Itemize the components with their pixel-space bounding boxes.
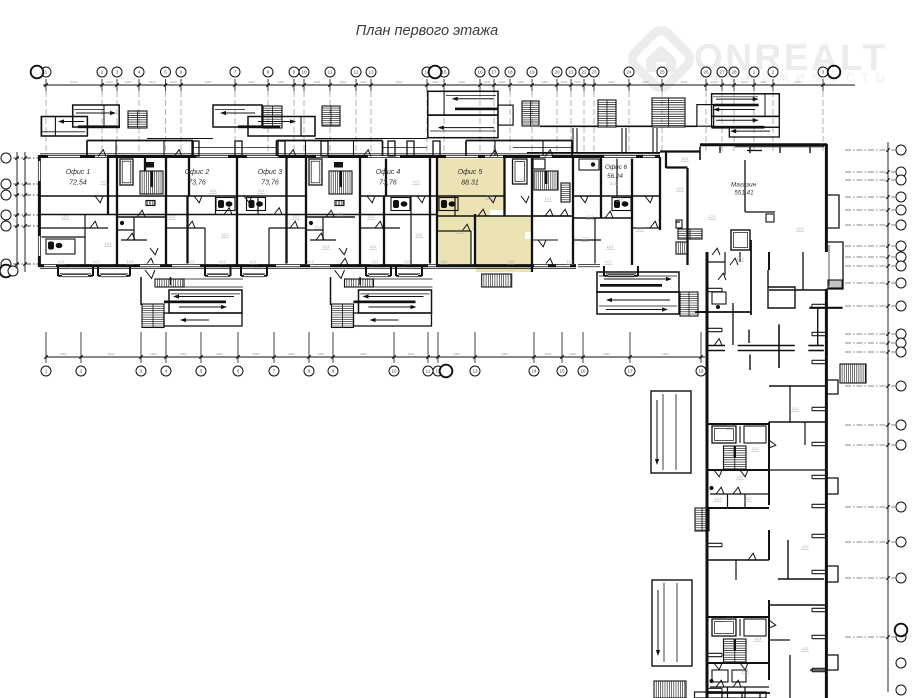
- svg-text:Офис 5: Офис 5: [458, 169, 483, 176]
- svg-text:3000: 3000: [314, 80, 321, 84]
- svg-text:1: 1: [45, 369, 48, 374]
- svg-text:5: 5: [200, 369, 203, 374]
- svg-text:12,3: 12,3: [105, 242, 112, 246]
- svg-text:12,3: 12,3: [323, 245, 330, 249]
- svg-text:12: 12: [353, 70, 359, 75]
- svg-text:8: 8: [267, 70, 270, 75]
- bathrooms with fixtures: [46, 159, 631, 254]
- svg-text:26: 26: [703, 70, 709, 75]
- svg-text:4: 4: [165, 369, 168, 374]
- svg-text:3000: 3000: [106, 80, 113, 84]
- svg-text:12,3: 12,3: [521, 177, 528, 181]
- top wing party walls: [108, 157, 688, 272]
- svg-text:12,3: 12,3: [93, 260, 100, 264]
- svg-text:22: 22: [581, 70, 587, 75]
- svg-text:12,3: 12,3: [101, 180, 108, 184]
- balcony hatch office5: [482, 274, 512, 287]
- svg-text:6000: 6000: [453, 352, 460, 356]
- svg-text:12,3: 12,3: [188, 260, 195, 264]
- svg-text:12,3: 12,3: [797, 227, 804, 231]
- entrance stair 3: [522, 101, 539, 126]
- svg-text:18: 18: [507, 70, 513, 75]
- entrance stair 1: [128, 111, 147, 128]
- svg-text:12,3: 12,3: [802, 545, 809, 549]
- svg-text:12,3: 12,3: [587, 215, 594, 219]
- right wing extra walls: [707, 252, 826, 698]
- svg-text:9: 9: [332, 369, 335, 374]
- svg-text:12,3: 12,3: [222, 233, 229, 237]
- svg-text:12,3: 12,3: [792, 407, 799, 411]
- highlight fill Офис 5: [437, 157, 532, 272]
- svg-text:3000: 3000: [340, 80, 347, 84]
- svg-text:11,12: 11,12: [610, 182, 618, 186]
- title: План первого этажа: [356, 23, 498, 39]
- svg-text:3: 3: [140, 369, 143, 374]
- watermark ONREALT: [628, 26, 891, 91]
- svg-text:12,3: 12,3: [210, 189, 217, 193]
- svg-text:Офис 3: Офис 3: [258, 169, 283, 176]
- svg-text:5: 5: [164, 70, 167, 75]
- room labels: [66, 164, 757, 197]
- svg-text:12,3: 12,3: [416, 233, 423, 237]
- right grid dimension column: [845, 142, 907, 695]
- svg-text:12,3: 12,3: [404, 260, 411, 264]
- svg-text:6000: 6000: [408, 352, 415, 356]
- svg-text:3000: 3000: [561, 80, 568, 84]
- right wing module B: [707, 617, 769, 698]
- svg-text:3: 3: [822, 70, 825, 75]
- svg-text:12,3: 12,3: [677, 187, 684, 191]
- svg-text:12,3: 12,3: [755, 637, 762, 641]
- corner stair hatch: [678, 229, 702, 239]
- rw stair hatch 1: [695, 508, 709, 531]
- svg-text:12,3: 12,3: [745, 497, 752, 501]
- corner elevator: [731, 230, 750, 250]
- right wing upper cross walls: [695, 308, 843, 370]
- right wing bottom rooms: [695, 670, 767, 698]
- svg-text:12,3: 12,3: [58, 260, 65, 264]
- svg-text:12,3: 12,3: [62, 215, 69, 219]
- svg-text:18: 18: [698, 369, 704, 374]
- svg-text:11: 11: [426, 369, 431, 374]
- svg-text:12,3: 12,3: [219, 260, 226, 264]
- svg-text:3000: 3000: [642, 80, 649, 84]
- svg-text:12,3: 12,3: [441, 260, 448, 264]
- svg-text:15: 15: [559, 369, 565, 374]
- svg-text:12,3: 12,3: [617, 197, 624, 201]
- svg-text:12,3: 12,3: [637, 227, 644, 231]
- bottom porch 2: [331, 270, 433, 328]
- svg-text:6000: 6000: [180, 352, 187, 356]
- svg-text:6000: 6000: [603, 352, 610, 356]
- svg-text:3000: 3000: [396, 80, 403, 84]
- svg-text:6000: 6000: [569, 352, 576, 356]
- door leaf marks top wing: [90, 196, 658, 265]
- svg-text:3: 3: [116, 70, 119, 75]
- svg-text:12,3: 12,3: [169, 215, 176, 219]
- svg-text:24: 24: [626, 70, 632, 75]
- svg-text:12,3: 12,3: [715, 497, 722, 501]
- top wing internal horizontal walls: [40, 196, 660, 231]
- svg-text:16: 16: [580, 369, 586, 374]
- svg-text:12,3: 12,3: [508, 260, 515, 264]
- svg-text:12,3: 12,3: [605, 260, 612, 264]
- entrance canopy 2: [213, 105, 315, 136]
- top wing partial walls: [40, 157, 617, 265]
- svg-text:12,3: 12,3: [567, 260, 574, 264]
- svg-text:3000: 3000: [499, 80, 506, 84]
- svg-text:3000: 3000: [741, 80, 748, 84]
- svg-text:4: 4: [138, 70, 141, 75]
- bottom porch 1: [141, 270, 243, 328]
- svg-text:3000: 3000: [711, 80, 718, 84]
- svg-text:3000: 3000: [795, 80, 802, 84]
- parapet and vent stubs: [147, 126, 697, 156]
- svg-text:7: 7: [273, 369, 276, 374]
- svg-text:12,3: 12,3: [457, 229, 464, 233]
- svg-text:27: 27: [719, 70, 725, 75]
- svg-text:12,3: 12,3: [727, 617, 734, 621]
- svg-text:6000: 6000: [662, 352, 669, 356]
- svg-text:12,3: 12,3: [727, 425, 734, 429]
- svg-text:3000: 3000: [278, 80, 285, 84]
- corner ramp hatch: [676, 242, 688, 254]
- svg-text:6000: 6000: [216, 352, 223, 356]
- right wing outer walls: [707, 252, 826, 698]
- svg-text:План первого этажа: План первого этажа: [356, 23, 498, 39]
- svg-text:12,3: 12,3: [486, 195, 493, 199]
- svg-text:3000: 3000: [518, 80, 525, 84]
- entrance canopy 1: [41, 105, 120, 136]
- svg-text:12,3: 12,3: [413, 180, 420, 184]
- svg-text:73,76: 73,76: [379, 180, 397, 187]
- svg-text:12,3: 12,3: [607, 245, 614, 249]
- svg-text:3000: 3000: [541, 80, 548, 84]
- svg-text:12,3: 12,3: [545, 197, 552, 201]
- top grid dimension line: [31, 66, 855, 152]
- svg-text:12,3: 12,3: [709, 215, 716, 219]
- svg-text:88.31: 88.31: [461, 180, 479, 187]
- stairwell S3: [532, 159, 573, 247]
- svg-text:Офис 2: Офис 2: [185, 169, 210, 176]
- entrance canopy 4: [697, 94, 779, 137]
- right wing west canopy 1: [651, 391, 691, 473]
- svg-text:6000: 6000: [108, 352, 115, 356]
- svg-text:6000: 6000: [150, 352, 157, 356]
- svg-text:8: 8: [308, 369, 311, 374]
- svg-text:3000: 3000: [205, 80, 212, 84]
- left wall stubs: [707, 288, 722, 691]
- svg-text:12,3: 12,3: [368, 215, 375, 219]
- entrance stair 2: [263, 106, 282, 128]
- stairwell S2: [306, 159, 355, 255]
- svg-text:13: 13: [472, 369, 478, 374]
- bottom grid dimension line: [41, 332, 706, 377]
- svg-text:2: 2: [772, 70, 775, 75]
- svg-text:3000: 3000: [574, 80, 581, 84]
- right wall pilasters: [812, 304, 838, 671]
- svg-text:6000: 6000: [501, 352, 508, 356]
- svg-text:3000: 3000: [432, 80, 439, 84]
- svg-text:7: 7: [234, 70, 237, 75]
- svg-text:13: 13: [368, 70, 374, 75]
- svg-text:12,3: 12,3: [737, 257, 744, 261]
- entrance canopy 3: [428, 91, 513, 137]
- svg-text:6000: 6000: [288, 352, 295, 356]
- svg-text:6: 6: [237, 369, 240, 374]
- svg-text:6000: 6000: [318, 352, 325, 356]
- svg-text:19: 19: [529, 70, 535, 75]
- svg-text:551,41: 551,41: [734, 190, 753, 197]
- svg-text:3000: 3000: [149, 80, 156, 84]
- top wing outer walls: [38, 154, 660, 268]
- svg-text:12,3: 12,3: [250, 260, 257, 264]
- svg-text:10: 10: [301, 70, 307, 75]
- svg-text:72,54: 72,54: [69, 180, 87, 187]
- svg-text:12,3: 12,3: [742, 669, 749, 673]
- shop top wall piers: [700, 147, 810, 161]
- lobby protrusions: [87, 141, 572, 157]
- svg-text:9: 9: [293, 70, 296, 75]
- svg-text:12,3: 12,3: [802, 647, 809, 651]
- entrance stair 4a: [598, 100, 616, 127]
- svg-text:10: 10: [391, 369, 397, 374]
- rw east stair: [840, 364, 866, 383]
- tub room: [513, 159, 528, 184]
- svg-text:3000: 3000: [608, 80, 615, 84]
- svg-text:3000: 3000: [71, 80, 78, 84]
- svg-text:12,3: 12,3: [372, 260, 379, 264]
- svg-text:20: 20: [554, 70, 560, 75]
- svg-text:3000: 3000: [125, 80, 132, 84]
- rw stair hatch 2: [654, 681, 686, 698]
- shop interior walls: [676, 160, 795, 315]
- svg-text:1: 1: [753, 70, 756, 75]
- svg-text:73,76: 73,76: [261, 180, 279, 187]
- svg-text:21: 21: [568, 70, 574, 75]
- svg-text:73,76: 73,76: [188, 180, 206, 187]
- svg-text:12,3: 12,3: [315, 225, 322, 229]
- svg-text:56.24: 56.24: [607, 173, 623, 180]
- svg-text:12,3: 12,3: [752, 447, 759, 451]
- svg-text:Офис 1: Офис 1: [66, 169, 91, 176]
- svg-text:12,3: 12,3: [582, 237, 589, 241]
- svg-text:3000: 3000: [170, 80, 177, 84]
- window inner lines: [37, 154, 655, 277]
- right wing west canopy 2: [652, 580, 692, 666]
- svg-text:12,3: 12,3: [370, 245, 377, 249]
- svg-text:6000: 6000: [253, 352, 260, 356]
- svg-text:Офис 4: Офис 4: [376, 169, 401, 176]
- svg-text:3000: 3000: [248, 80, 255, 84]
- svg-text:12,3: 12,3: [737, 475, 744, 479]
- svg-text:6: 6: [180, 70, 183, 75]
- stairwell S1: [117, 159, 166, 255]
- svg-text:Магазин: Магазин: [731, 182, 757, 189]
- svg-text:28: 28: [731, 70, 737, 75]
- entrance stair 4b: [652, 98, 685, 127]
- svg-text:12,3: 12,3: [337, 212, 344, 216]
- corner porch: [597, 272, 698, 316]
- svg-text:Офис 6: Офис 6: [605, 164, 628, 171]
- svg-text:23: 23: [591, 70, 597, 75]
- svg-text:14: 14: [531, 369, 537, 374]
- svg-text:1: 1: [45, 70, 48, 75]
- right wing north apartment: [707, 248, 740, 309]
- svg-text:2: 2: [101, 70, 104, 75]
- svg-text:3000: 3000: [484, 80, 491, 84]
- right wing corridor walls: [707, 252, 826, 693]
- svg-text:12,3: 12,3: [293, 215, 300, 219]
- svg-text:16: 16: [477, 70, 483, 75]
- svg-text:17: 17: [491, 70, 497, 75]
- svg-text:11: 11: [328, 70, 333, 75]
- svg-text:3000: 3000: [459, 80, 466, 84]
- left grid dimension column: [0, 152, 38, 277]
- svg-text:12,3: 12,3: [258, 189, 265, 193]
- entrance stair 3b: [322, 106, 340, 126]
- shop outer walls: [660, 144, 827, 252]
- right wing module A: [707, 424, 769, 508]
- svg-text:6000: 6000: [60, 352, 67, 356]
- svg-text:12,3: 12,3: [682, 157, 689, 161]
- svg-text:6000: 6000: [360, 352, 367, 356]
- svg-text:6000: 6000: [545, 352, 552, 356]
- svg-text:3000: 3000: [360, 80, 367, 84]
- svg-text:17: 17: [627, 369, 633, 374]
- shop east balconies: [826, 195, 843, 289]
- svg-text:3000: 3000: [681, 80, 688, 84]
- svg-text:12,3: 12,3: [127, 260, 134, 264]
- svg-text:15: 15: [441, 70, 447, 75]
- svg-text:3000: 3000: [760, 80, 767, 84]
- bottom bay windows: [58, 266, 638, 276]
- tiny dimension numbers: [57, 157, 809, 673]
- svg-text:12,3: 12,3: [307, 260, 314, 264]
- svg-text:2: 2: [80, 369, 83, 374]
- svg-text:25: 25: [659, 70, 665, 75]
